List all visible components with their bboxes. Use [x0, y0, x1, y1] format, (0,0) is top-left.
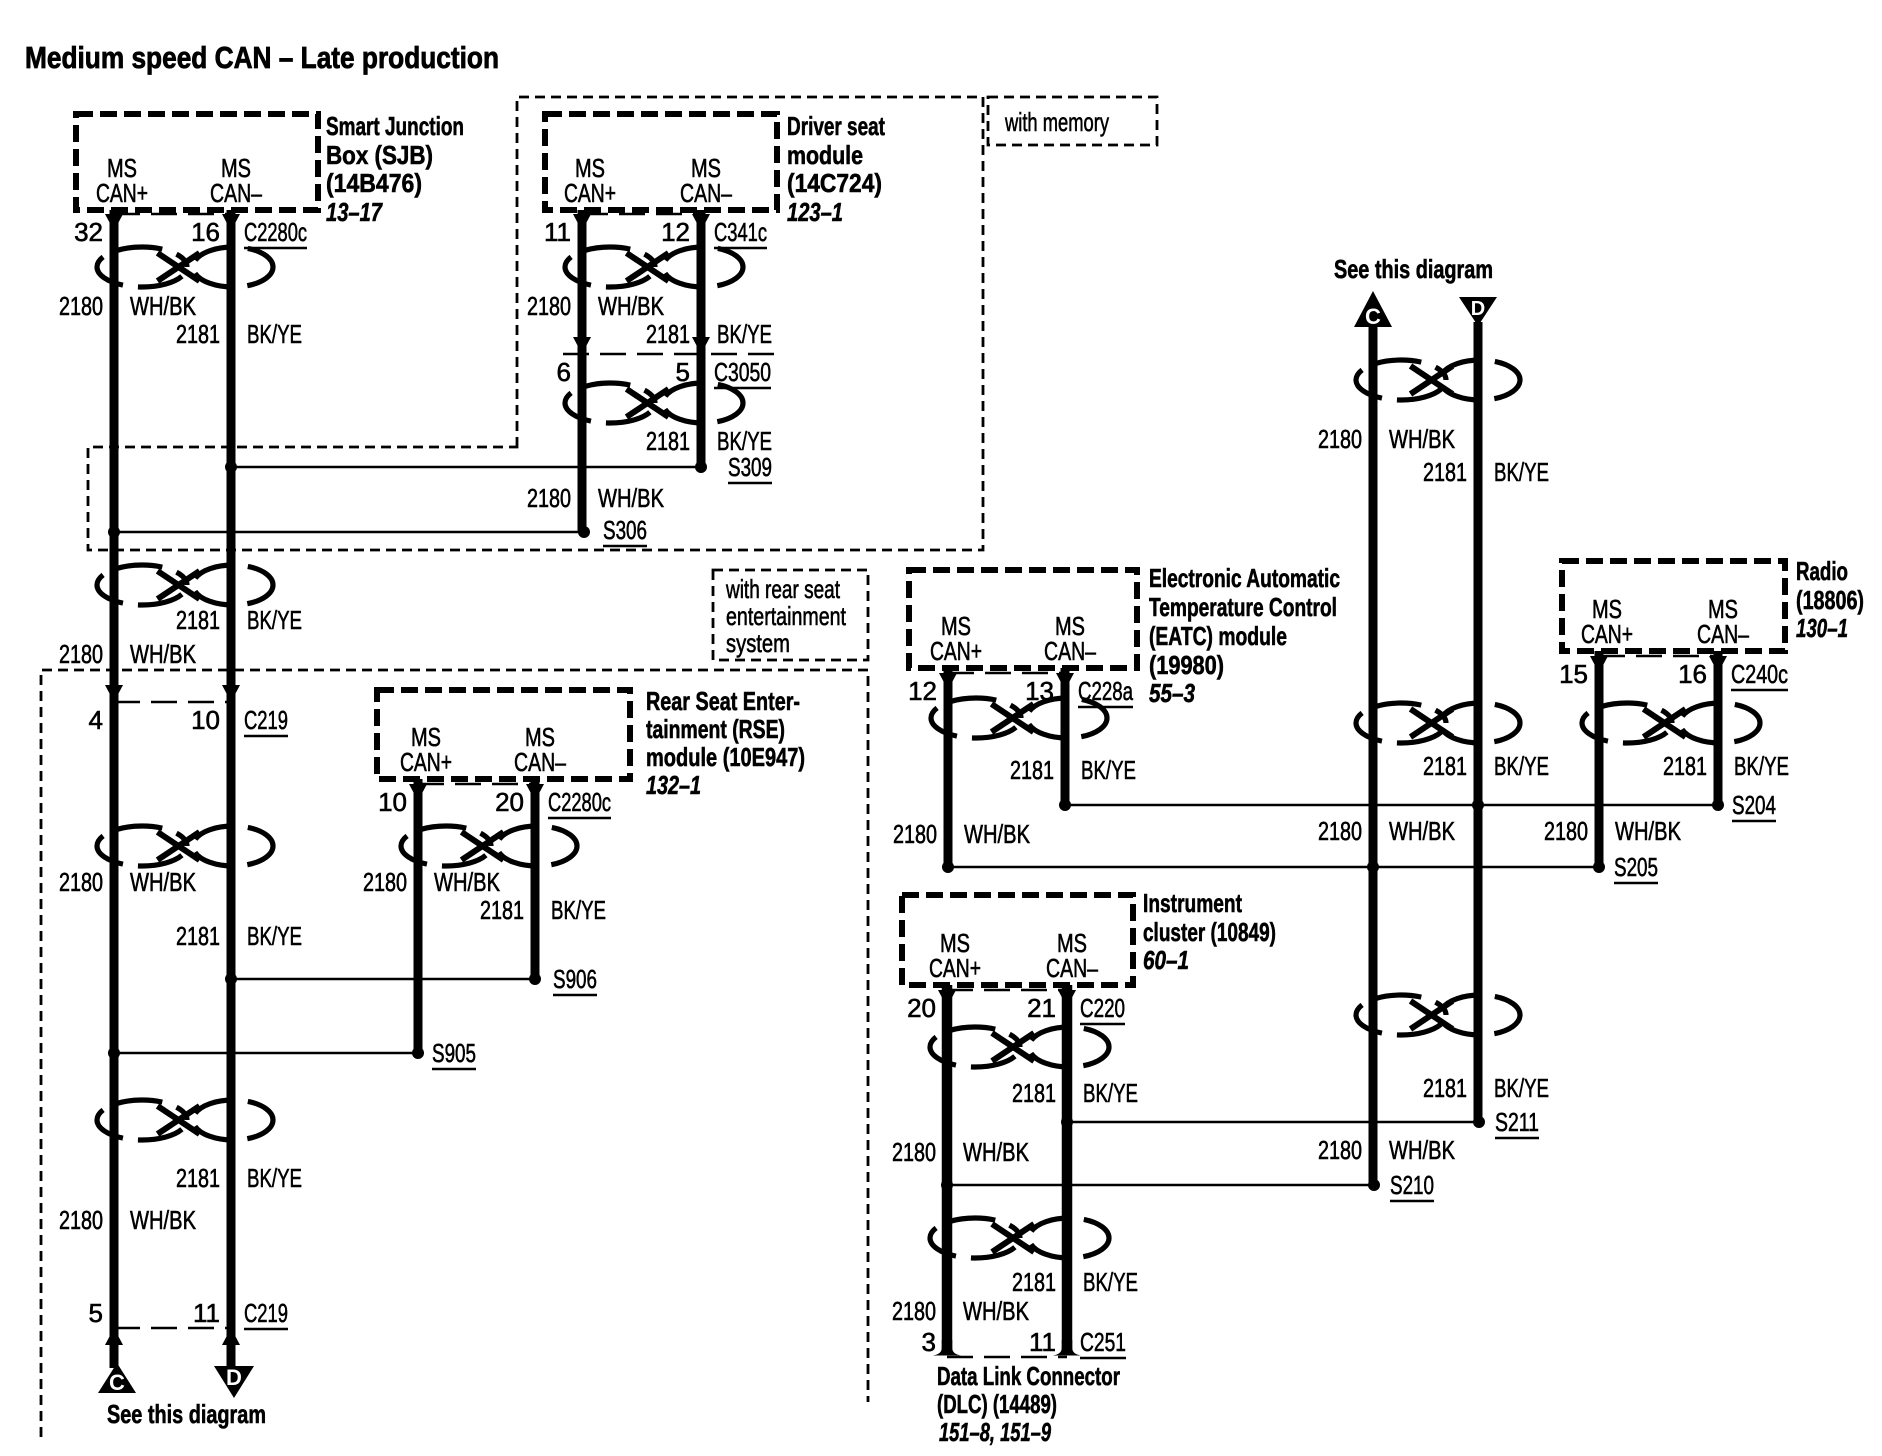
- svg-text:20: 20: [495, 787, 524, 817]
- twisted pair left mid1: [97, 565, 273, 605]
- wire 2181 BK/YE from RSE pin 20: [531, 779, 540, 979]
- svg-text:10: 10: [378, 787, 407, 817]
- svg-text:S210: S210: [1390, 1170, 1434, 1200]
- splice S205: [1593, 861, 1605, 873]
- svg-text:2180: 2180: [363, 867, 407, 897]
- svg-text:2180: 2180: [1544, 816, 1588, 846]
- arrowhead cluster CAN+ wire: [938, 990, 956, 1007]
- svg-text:2180: 2180: [892, 1137, 936, 1167]
- svg-text:CAN+: CAN+: [929, 953, 981, 983]
- connector C219 line: [114, 1327, 231, 1330]
- wire to splice S205: [948, 866, 1599, 869]
- splice S204: [1712, 799, 1724, 811]
- svg-text:BK/YE: BK/YE: [1494, 457, 1549, 487]
- arrowhead cluster CAN- wire: [1058, 990, 1076, 1007]
- underline S906: [553, 994, 597, 997]
- svg-text:S906: S906: [553, 964, 597, 994]
- svg-text:S306: S306: [603, 515, 647, 545]
- svg-text:60–1: 60–1: [1143, 945, 1189, 975]
- module Instrument cluster: [902, 895, 1133, 985]
- underline S204: [1732, 820, 1776, 823]
- svg-text:D: D: [1471, 298, 1485, 320]
- bus wire C 2180 WH/BK: [1369, 327, 1378, 1185]
- bus wire D 2181 BK/YE: [1474, 322, 1483, 1122]
- wire stub to connector C: [110, 1328, 119, 1368]
- module Smart Junction Box (SJB): [76, 114, 318, 210]
- arrowhead at C3050 CAN-: [692, 337, 710, 354]
- svg-text:Box (SJB): Box (SJB): [326, 140, 433, 170]
- underline S210: [1390, 1200, 1434, 1203]
- twisted pair below cluster: [930, 1027, 1109, 1067]
- svg-text:2181: 2181: [176, 921, 220, 951]
- junction on left CAN- wire: [225, 973, 237, 985]
- svg-text:WH/BK: WH/BK: [598, 291, 665, 321]
- svg-text:13–17: 13–17: [326, 197, 383, 227]
- svg-text:2180: 2180: [527, 483, 571, 513]
- underline C219: [244, 735, 288, 738]
- svg-text:2181: 2181: [646, 426, 690, 456]
- wire stub to connector D: [227, 1328, 236, 1368]
- arrowhead RSE CAN- wire: [526, 784, 544, 801]
- svg-text:2180: 2180: [893, 819, 937, 849]
- svg-text:C219: C219: [244, 705, 288, 735]
- svg-text:(14B476): (14B476): [326, 168, 422, 198]
- wire 2181 BK/YE from driver seat pin 12: [697, 210, 706, 467]
- twisted pair left mid2: [97, 826, 273, 866]
- svg-text:S204: S204: [1732, 790, 1776, 820]
- svg-text:3: 3: [922, 1327, 936, 1357]
- svg-text:21: 21: [1027, 993, 1056, 1023]
- connector C251 line: [947, 1356, 1067, 1359]
- arrowhead EATC CAN+ wire: [939, 673, 957, 690]
- svg-text:C2280c: C2280c: [548, 787, 611, 817]
- arrowhead SJB CAN- wire: [222, 214, 240, 231]
- svg-text:CAN+: CAN+: [96, 178, 148, 208]
- wire 2181 BK/YE from EATC pin 13: [1061, 668, 1070, 805]
- svg-text:C: C: [1365, 304, 1381, 329]
- svg-text:Instrument: Instrument: [1143, 888, 1242, 918]
- underline C220: [1080, 1023, 1125, 1026]
- svg-text:See this diagram: See this diagram: [107, 1399, 266, 1429]
- svg-text:S905: S905: [432, 1038, 476, 1068]
- svg-text:BK/YE: BK/YE: [551, 895, 606, 925]
- svg-text:WH/BK: WH/BK: [963, 1296, 1030, 1326]
- svg-text:16: 16: [1678, 659, 1707, 689]
- underline C341c: [714, 247, 767, 250]
- junction EATC CAN- end: [1059, 799, 1071, 811]
- junction EATC CAN+ end: [942, 861, 954, 873]
- svg-text:BK/YE: BK/YE: [1494, 751, 1549, 781]
- svg-text:module (10E947): module (10E947): [646, 742, 805, 772]
- arrowhead driver seat CAN+ wire: [573, 214, 591, 231]
- svg-text:2180: 2180: [1318, 1135, 1362, 1165]
- svg-text:C2280c: C2280c: [244, 217, 307, 247]
- svg-text:BK/YE: BK/YE: [247, 921, 302, 951]
- svg-text:CAN–: CAN–: [1697, 619, 1749, 649]
- flared foot DLC CAN+ wire: [933, 1340, 961, 1356]
- svg-text:5: 5: [89, 1298, 103, 1328]
- twisted pair below C341c: [565, 247, 743, 287]
- svg-text:2180: 2180: [527, 291, 571, 321]
- junction cluster CAN- wire: [1061, 1116, 1073, 1128]
- svg-text:2180: 2180: [59, 291, 103, 321]
- svg-text:with rear seat: with rear seat: [725, 574, 840, 604]
- svg-text:C240c: C240c: [1731, 659, 1788, 689]
- svg-text:S205: S205: [1614, 852, 1658, 882]
- svg-text:WH/BK: WH/BK: [1389, 1135, 1456, 1165]
- svg-text:151–8, 151–9: 151–8, 151–9: [939, 1417, 1051, 1447]
- svg-text:Electronic Automatic: Electronic Automatic: [1149, 563, 1340, 593]
- underline S309: [728, 482, 772, 485]
- connector C220 line: [947, 989, 1067, 992]
- arrowhead at C219 bottom CAN-: [222, 1328, 240, 1345]
- junction at SJB CAN- wire: [225, 461, 237, 473]
- module Rear Seat Entertainment (RSE): [377, 690, 630, 779]
- splice S306: [578, 526, 590, 538]
- svg-text:12: 12: [661, 217, 690, 247]
- splice S211: [1473, 1116, 1485, 1128]
- arrowhead at C219 CAN-: [222, 685, 240, 702]
- svg-text:16: 16: [191, 217, 220, 247]
- junction cluster CAN+ wire: [941, 1179, 953, 1191]
- twisted pair C/D upper: [1356, 360, 1520, 400]
- svg-text:BK/YE: BK/YE: [1083, 1078, 1138, 1108]
- twisted pair below RSE: [401, 826, 577, 866]
- svg-text:BK/YE: BK/YE: [1494, 1073, 1549, 1103]
- svg-text:WH/BK: WH/BK: [434, 867, 501, 897]
- connector C3050 line: [563, 353, 776, 356]
- svg-text:2181: 2181: [1012, 1078, 1056, 1108]
- splice S210: [1368, 1179, 1380, 1191]
- svg-text:WH/BK: WH/BK: [963, 1137, 1030, 1167]
- svg-text:11: 11: [193, 1298, 220, 1328]
- wire to splice S211: [1067, 1121, 1479, 1124]
- svg-text:BK/YE: BK/YE: [1734, 751, 1789, 781]
- wire 2180 WH/BK from cluster pin 20: [942, 985, 953, 1352]
- svg-text:WH/BK: WH/BK: [130, 639, 197, 669]
- junction on left CAN+ wire: [108, 1047, 120, 1059]
- connector C240c line: [1599, 655, 1718, 658]
- wire to splice S905: [114, 1052, 418, 1055]
- svg-text:2181: 2181: [1663, 751, 1707, 781]
- svg-text:123–1: 123–1: [787, 197, 843, 227]
- module Radio: [1562, 561, 1785, 651]
- svg-text:BK/YE: BK/YE: [717, 319, 772, 349]
- svg-text:CAN+: CAN+: [564, 178, 616, 208]
- wire to splice S906: [231, 978, 535, 981]
- junction S204 line x D wire: [1472, 799, 1484, 811]
- svg-text:WH/BK: WH/BK: [1615, 816, 1682, 846]
- svg-text:2181: 2181: [1012, 1267, 1056, 1297]
- svg-text:2181: 2181: [1010, 755, 1054, 785]
- svg-text:4: 4: [89, 705, 103, 735]
- underline C219: [244, 1328, 288, 1331]
- twisted pair below EATC: [931, 698, 1107, 738]
- twisted pair left lower: [97, 1100, 273, 1140]
- svg-text:CAN–: CAN–: [680, 178, 732, 208]
- svg-text:with memory: with memory: [1004, 107, 1109, 137]
- underline C2280c: [548, 817, 611, 820]
- svg-text:2181: 2181: [1423, 1073, 1467, 1103]
- svg-text:BK/YE: BK/YE: [247, 319, 302, 349]
- svg-text:WH/BK: WH/BK: [130, 1205, 197, 1235]
- svg-text:(DLC) (14489): (DLC) (14489): [937, 1389, 1057, 1419]
- off-page connector D (bottom): [214, 1365, 254, 1398]
- underline C2280c: [244, 247, 307, 250]
- svg-text:2181: 2181: [480, 895, 524, 925]
- svg-text:tainment (RSE): tainment (RSE): [646, 714, 785, 744]
- underline S306: [603, 545, 647, 548]
- svg-text:2180: 2180: [59, 867, 103, 897]
- svg-text:11: 11: [1029, 1327, 1056, 1357]
- underline S205: [1614, 882, 1658, 885]
- underline C228a: [1078, 706, 1133, 709]
- wire 2180 WH/BK from radio pin 15: [1595, 651, 1604, 867]
- svg-text:Radio: Radio: [1796, 556, 1848, 586]
- underline S211: [1495, 1137, 1539, 1140]
- svg-text:2180: 2180: [59, 639, 103, 669]
- underline C3050: [714, 387, 771, 390]
- svg-text:2181: 2181: [646, 319, 690, 349]
- svg-text:32: 32: [74, 217, 103, 247]
- svg-text:Temperature Control: Temperature Control: [1149, 592, 1337, 622]
- arrowhead driver seat CAN- wire: [692, 214, 710, 231]
- option region (with rear seat entertainment) dashed outline: [41, 670, 868, 1437]
- svg-text:C341c: C341c: [714, 217, 767, 247]
- svg-text:C219: C219: [244, 1298, 288, 1328]
- svg-text:C220: C220: [1080, 993, 1125, 1023]
- wire to splice S204: [1065, 804, 1718, 807]
- svg-text:2181: 2181: [1423, 457, 1467, 487]
- underline C251: [1080, 1357, 1126, 1360]
- option label box (with rear seat entertainment system): [713, 570, 868, 660]
- arrowhead radio CAN+ wire: [1590, 656, 1608, 673]
- twisted pair above DLC: [930, 1218, 1109, 1258]
- svg-text:10: 10: [191, 705, 220, 735]
- svg-text:55–3: 55–3: [1149, 678, 1195, 708]
- svg-text:S211: S211: [1495, 1107, 1539, 1137]
- svg-text:BK/YE: BK/YE: [247, 1163, 302, 1193]
- svg-text:WH/BK: WH/BK: [1389, 424, 1456, 454]
- svg-text:See this diagram: See this diagram: [1334, 254, 1493, 284]
- off-page connector C (bottom): [98, 1363, 136, 1395]
- wire 2181 BK/YE from radio pin 16: [1714, 651, 1723, 805]
- svg-text:6: 6: [557, 357, 571, 387]
- off-page connector D (top): [1459, 297, 1497, 326]
- svg-text:2180: 2180: [1318, 424, 1362, 454]
- svg-text:11: 11: [544, 217, 571, 247]
- svg-text:BK/YE: BK/YE: [247, 605, 302, 635]
- svg-text:entertainment: entertainment: [726, 601, 847, 631]
- wire 2181 BK/YE from SJB pin 16: [227, 210, 236, 1328]
- svg-text:module: module: [787, 140, 863, 170]
- svg-text:(EATC) module: (EATC) module: [1149, 621, 1287, 651]
- wire to splice S306: [114, 531, 584, 534]
- svg-text:CAN–: CAN–: [514, 747, 566, 777]
- arrowhead at C219 CAN+: [105, 685, 123, 702]
- splice S309: [695, 461, 707, 473]
- svg-text:S309: S309: [728, 452, 772, 482]
- svg-text:2180: 2180: [59, 1205, 103, 1235]
- svg-text:132–1: 132–1: [646, 770, 701, 800]
- svg-text:15: 15: [1559, 659, 1588, 689]
- wire 2180 WH/BK from driver seat pin 11: [578, 210, 587, 532]
- svg-text:CAN+: CAN+: [400, 747, 452, 777]
- connector C2280c line: [418, 783, 535, 786]
- twisted pair C/D lower: [1356, 995, 1520, 1035]
- wire 2181 BK/YE from cluster pin 21: [1062, 985, 1073, 1352]
- svg-text:2181: 2181: [176, 1163, 220, 1193]
- wire to splice S309: [231, 466, 701, 469]
- svg-text:system: system: [726, 628, 790, 658]
- arrowhead at C219 bottom CAN+: [105, 1328, 123, 1345]
- connector C341c line: [582, 213, 701, 216]
- off-page connector C (top): [1354, 291, 1392, 329]
- svg-text:2180: 2180: [892, 1296, 936, 1326]
- junction S205 line x C wire: [1367, 861, 1379, 873]
- svg-text:Driver seat: Driver seat: [787, 111, 885, 141]
- option region (with memory) dashed outline: [88, 97, 983, 550]
- module EATC: [909, 570, 1137, 668]
- svg-text:D: D: [226, 1365, 242, 1390]
- splice S905: [412, 1047, 424, 1059]
- svg-text:WH/BK: WH/BK: [130, 867, 197, 897]
- svg-text:Smart Junction: Smart Junction: [326, 111, 464, 141]
- svg-text:C: C: [109, 1370, 125, 1395]
- svg-text:CAN–: CAN–: [1044, 636, 1096, 666]
- module Driver seat: [545, 114, 777, 210]
- svg-text:C3050: C3050: [714, 357, 771, 387]
- svg-text:WH/BK: WH/BK: [130, 291, 197, 321]
- svg-text:C251: C251: [1080, 1327, 1126, 1357]
- svg-text:(18806): (18806): [1796, 585, 1864, 615]
- option label box (with memory): [988, 97, 1157, 145]
- svg-text:2181: 2181: [176, 605, 220, 635]
- wire 2180 WH/BK from EATC pin 12: [944, 668, 953, 867]
- twisted pair below C3050: [565, 383, 743, 423]
- svg-text:BK/YE: BK/YE: [1081, 755, 1136, 785]
- wire 2180 WH/BK from RSE pin 10: [414, 779, 423, 1053]
- twisted pair C/D mid: [1356, 703, 1520, 743]
- svg-text:2181: 2181: [1423, 751, 1467, 781]
- connector C2280c line: [114, 213, 231, 216]
- svg-text:12: 12: [908, 676, 937, 706]
- svg-text:CAN–: CAN–: [1046, 953, 1098, 983]
- svg-text:WH/BK: WH/BK: [964, 819, 1031, 849]
- svg-text:(14C724): (14C724): [787, 168, 882, 198]
- wire 2180 WH/BK from SJB pin 32: [110, 210, 119, 1328]
- svg-text:2180: 2180: [1318, 816, 1362, 846]
- underline C240c: [1731, 689, 1788, 692]
- splice S906: [529, 973, 541, 985]
- svg-text:CAN+: CAN+: [930, 636, 982, 666]
- svg-text:Medium speed CAN – Late produc: Medium speed CAN – Late production: [25, 40, 499, 75]
- connector C228a line: [948, 672, 1065, 675]
- arrowhead at C3050 CAN+: [573, 337, 591, 354]
- arrowhead radio CAN- wire: [1709, 656, 1727, 673]
- wire to splice S210: [947, 1184, 1374, 1187]
- twisted pair below radio: [1582, 703, 1760, 743]
- svg-text:WH/BK: WH/BK: [598, 483, 665, 513]
- svg-text:Rear Seat Enter-: Rear Seat Enter-: [646, 686, 800, 716]
- svg-text:WH/BK: WH/BK: [1389, 816, 1456, 846]
- flared foot DLC CAN- wire: [1053, 1340, 1081, 1356]
- svg-text:Data Link Connector: Data Link Connector: [937, 1361, 1120, 1391]
- svg-text:2181: 2181: [176, 319, 220, 349]
- twisted pair below C2280c: [97, 247, 273, 287]
- svg-text:130–1: 130–1: [1796, 613, 1848, 643]
- svg-text:CAN+: CAN+: [1581, 619, 1633, 649]
- svg-text:(19980): (19980): [1149, 650, 1224, 680]
- arrowhead RSE CAN+ wire: [409, 784, 427, 801]
- svg-text:CAN–: CAN–: [210, 178, 262, 208]
- svg-text:cluster (10849): cluster (10849): [1143, 917, 1276, 947]
- underline S905: [432, 1068, 476, 1071]
- arrowhead EATC CAN- wire: [1056, 673, 1074, 690]
- svg-text:BK/YE: BK/YE: [1083, 1267, 1138, 1297]
- junction at SJB CAN+ wire: [108, 526, 120, 538]
- connector C219 line: [114, 701, 231, 704]
- arrowhead SJB CAN+ wire: [105, 214, 123, 231]
- svg-text:20: 20: [907, 993, 936, 1023]
